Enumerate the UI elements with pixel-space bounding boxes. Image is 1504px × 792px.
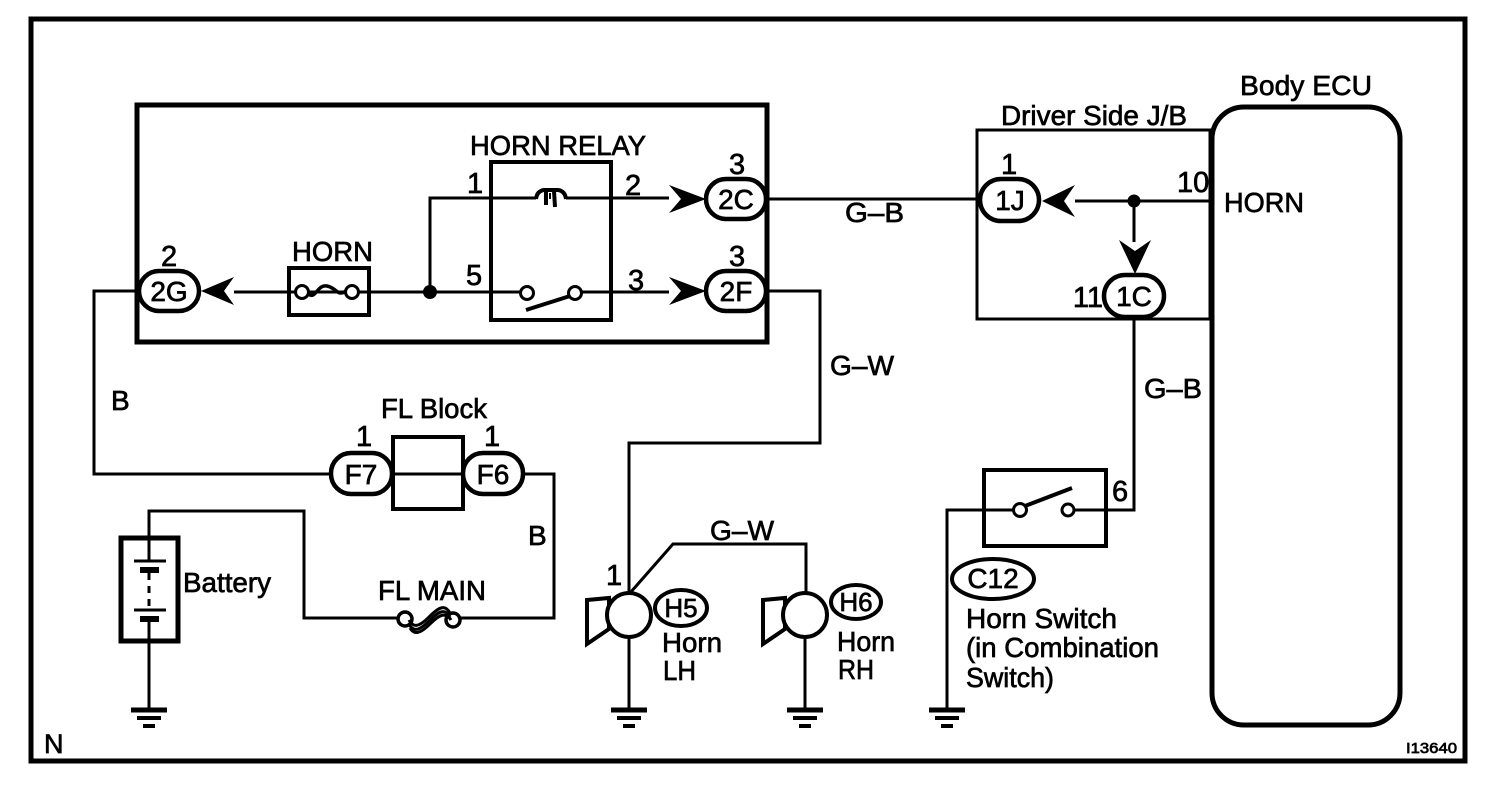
connector F7 <box>331 453 392 494</box>
ground battery <box>131 710 167 726</box>
wire G-W from 2F to horn LH <box>629 291 820 592</box>
wire horn LH to ground <box>628 637 631 708</box>
arrow into 2G <box>201 277 234 305</box>
svg-text:Horn: Horn <box>662 627 722 658</box>
svg-text:G–W: G–W <box>710 515 775 546</box>
relay U1 box <box>491 162 611 320</box>
box engine room relay block <box>137 105 767 342</box>
junction node at 1134 <box>1128 195 1141 208</box>
wire G-W horn LH to horn RH <box>630 544 806 593</box>
svg-text:B: B <box>111 385 130 416</box>
svg-text:F6: F6 <box>477 459 510 490</box>
svg-text:C12: C12 <box>967 563 1018 594</box>
svg-text:FL Block: FL Block <box>381 393 488 424</box>
svg-text:10: 10 <box>1177 167 1209 199</box>
wire junction down to arrow <box>1133 201 1136 242</box>
svg-text:1: 1 <box>606 560 622 592</box>
relay coil <box>536 190 566 207</box>
svg-text:Driver Side J/B: Driver Side J/B <box>1001 100 1187 131</box>
FL block body <box>393 437 463 509</box>
arrow into 2C <box>669 185 706 213</box>
box Body ECU <box>1212 107 1400 725</box>
svg-text:H5: H5 <box>664 593 697 623</box>
connector H6 <box>831 585 881 619</box>
svg-text:1J: 1J <box>995 185 1025 216</box>
label Horn LH <box>662 627 722 686</box>
wire relay coil to pin2 <box>566 197 669 200</box>
junction node <box>423 285 437 299</box>
horn LH symbol H5 <box>587 593 651 644</box>
svg-text:5: 5 <box>466 260 482 292</box>
svg-text:H6: H6 <box>839 587 872 617</box>
svg-text:G–W: G–W <box>830 350 895 381</box>
svg-text:2G: 2G <box>150 276 187 307</box>
connector F6 <box>463 453 523 494</box>
svg-text:Horn: Horn <box>837 626 895 657</box>
label Horn RH <box>837 626 895 685</box>
ground horn LH <box>611 710 647 726</box>
svg-text:1: 1 <box>356 421 372 453</box>
svg-text:N: N <box>44 729 64 759</box>
svg-text:HORN RELAY: HORN RELAY <box>470 130 646 161</box>
horn switch contacts <box>984 488 1106 517</box>
connector 2C <box>706 179 766 219</box>
svg-text:1: 1 <box>467 168 483 200</box>
wire B from 2G to F7 <box>94 291 331 474</box>
wire battery to ground <box>148 622 151 708</box>
relay switch contact left <box>521 287 534 300</box>
svg-text:G–B: G–B <box>845 197 904 228</box>
svg-text:(in Combination: (in Combination <box>966 632 1159 663</box>
wire horn switch to ground <box>947 510 984 708</box>
ground horn RH <box>787 710 823 726</box>
svg-text:2F: 2F <box>720 276 753 307</box>
svg-text:3: 3 <box>729 241 745 273</box>
arrow into 2F <box>669 277 706 305</box>
connector 1J <box>980 179 1039 221</box>
horn RH symbol H6 <box>763 593 827 644</box>
svg-text:G–B: G–B <box>1144 373 1202 404</box>
fusible link FL MAIN <box>398 608 460 633</box>
relay switch blade <box>526 296 570 310</box>
svg-text:I13640: I13640 <box>1406 740 1457 757</box>
connector 2F <box>706 271 766 311</box>
svg-text:11: 11 <box>1073 282 1103 314</box>
wire 1J to ECU pin10 <box>1075 200 1212 203</box>
svg-text:2: 2 <box>161 241 177 273</box>
ground horn switch <box>929 710 965 726</box>
svg-text:6: 6 <box>1112 476 1128 508</box>
connector H5 <box>655 590 707 626</box>
svg-text:LH: LH <box>663 655 696 686</box>
svg-text:RH: RH <box>838 654 874 685</box>
fuse HORN element <box>296 286 359 299</box>
arrow down into 1C <box>1119 240 1151 274</box>
box Driver Side J/B <box>977 130 1210 319</box>
wire lower through relay <box>234 291 521 294</box>
fuse HORN box <box>289 268 369 315</box>
connector 1C <box>1104 275 1164 317</box>
svg-text:FL MAIN: FL MAIN <box>378 575 486 606</box>
wire B from F6 down to FL MAIN <box>460 474 554 618</box>
wire G-B 2C to 1J <box>766 198 980 201</box>
svg-text:HORN: HORN <box>292 236 373 267</box>
svg-text:3: 3 <box>729 149 745 181</box>
wire horn RH to ground <box>804 637 807 708</box>
svg-text:1: 1 <box>484 421 500 453</box>
wire relay pin3 <box>582 291 669 294</box>
connector 2G <box>139 271 199 311</box>
svg-text:1C: 1C <box>1116 281 1152 312</box>
svg-text:2: 2 <box>625 170 641 202</box>
svg-text:F7: F7 <box>345 459 378 490</box>
relay switch contact right <box>569 287 582 300</box>
wire 1C down to horn switch <box>1106 317 1134 510</box>
svg-text:2C: 2C <box>718 184 754 215</box>
svg-text:Horn Switch: Horn Switch <box>966 603 1117 634</box>
svg-text:Battery: Battery <box>183 567 271 598</box>
wire relay pin1 top <box>430 198 536 292</box>
svg-text:B: B <box>528 520 547 551</box>
arrow into 1J <box>1042 185 1075 217</box>
wire FL MAIN to battery <box>149 511 398 618</box>
svg-text:HORN: HORN <box>1224 187 1304 218</box>
battery <box>121 538 178 641</box>
horn switch box <box>984 470 1106 546</box>
connector C12 <box>952 559 1034 599</box>
svg-text:Body ECU: Body ECU <box>1240 70 1372 101</box>
svg-text:Switch): Switch) <box>966 662 1054 693</box>
svg-text:1: 1 <box>1001 149 1017 181</box>
